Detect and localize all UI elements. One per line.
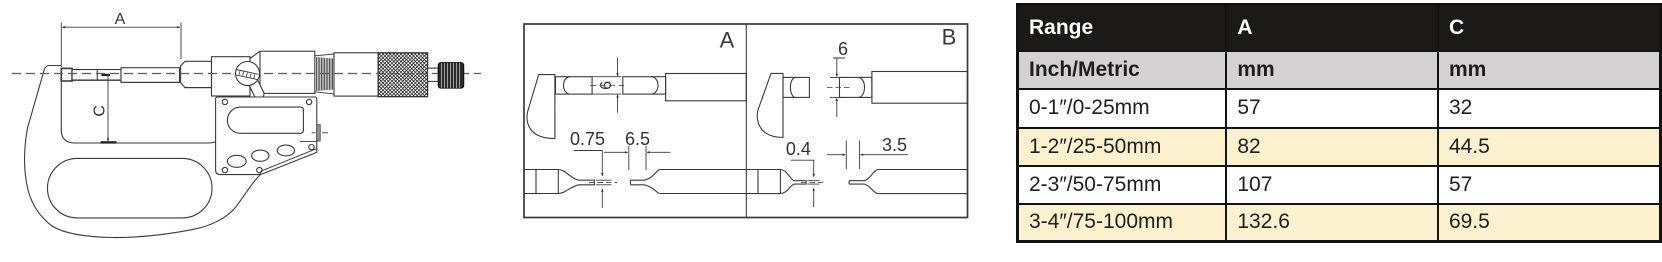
anvil — [61, 68, 72, 81]
panel divider — [745, 24, 747, 218]
frame throat cutout — [61, 80, 224, 143]
dimension C bottom tick — [101, 141, 117, 143]
panel B lower anvil blade — [780, 170, 806, 194]
hub block 1 — [181, 61, 212, 87]
panel B 0.4 dim — [791, 160, 820, 184]
svg-text:3.5: 3.5 — [882, 135, 907, 155]
panel A gap centerline — [590, 84, 624, 86]
panel A 0.75 dim — [574, 151, 612, 185]
frame outer outline — [24, 66, 260, 238]
panel A 6.5 dim — [629, 146, 646, 170]
panel B anvil — [783, 77, 809, 97]
panel B 6-dim arrows — [836, 58, 838, 77]
svg-text:A: A — [720, 28, 735, 53]
sleeve graduation edges — [315, 54, 334, 94]
ratchet shaft — [428, 68, 439, 81]
panel A lower anvil bar — [524, 170, 558, 194]
svg-text:0.4: 0.4 — [786, 139, 811, 159]
panel A lower spindle blade — [631, 170, 660, 194]
dimension A extension lines — [61, 23, 181, 68]
panel B spindle bar — [872, 72, 968, 104]
lock lever screw — [236, 62, 260, 86]
svg-text:A: A — [115, 11, 126, 28]
adjustment tab — [317, 125, 320, 141]
thimble — [334, 53, 378, 96]
spindle thick section — [121, 68, 180, 83]
dimension C line — [107, 76, 109, 142]
panel A anvil — [556, 77, 593, 94]
ratchet stop — [438, 63, 463, 88]
panel A lower anvil blade — [558, 170, 594, 194]
plate screws — [222, 99, 227, 104]
centerline — [12, 73, 481, 75]
panel A lower spindle bar — [660, 170, 747, 194]
svg-text:0.75: 0.75 — [570, 129, 605, 149]
plate chamfer edge — [260, 149, 317, 175]
panel B lower spindle blade — [849, 170, 878, 194]
panel A frame wedge — [527, 75, 555, 139]
panel B lower spindle bar — [878, 170, 967, 194]
panel A 6-dim arrows — [617, 58, 619, 76]
panel A lower centerline — [589, 182, 617, 184]
frame lower capsule cutout — [48, 158, 213, 218]
sleeve barrel — [260, 51, 315, 93]
cone to sleeve — [250, 51, 260, 93]
dimension A line — [62, 26, 180, 28]
panel B gap centerline — [827, 86, 851, 88]
plate window — [227, 107, 303, 133]
svg-text:C: C — [92, 105, 109, 117]
frame side plate — [216, 97, 317, 175]
panel B spindle tip — [840, 77, 872, 97]
panel B lower anvil bar — [746, 170, 780, 194]
panel B 3.5 dim — [846, 141, 859, 170]
panel B 6-dim extension lines — [830, 58, 847, 97]
panel B frame wedge — [757, 73, 783, 137]
thimble knurl — [328, 52, 478, 102]
lock lever arm — [252, 79, 260, 94]
panel A spindle tip — [623, 77, 666, 94]
panel B lower centerline — [801, 181, 823, 183]
hub block 2 — [212, 57, 251, 96]
detail box — [524, 24, 968, 218]
spindle thin section — [72, 70, 121, 81]
sleeve graduations — [317, 57, 333, 91]
svg-text:6: 6 — [838, 39, 848, 59]
svg-text:B: B — [942, 25, 957, 50]
panel A 6-dim extension lines — [592, 77, 621, 94]
C origin tick — [102, 74, 111, 76]
panel A spindle bar — [666, 74, 747, 101]
plate oval holes — [227, 155, 246, 167]
